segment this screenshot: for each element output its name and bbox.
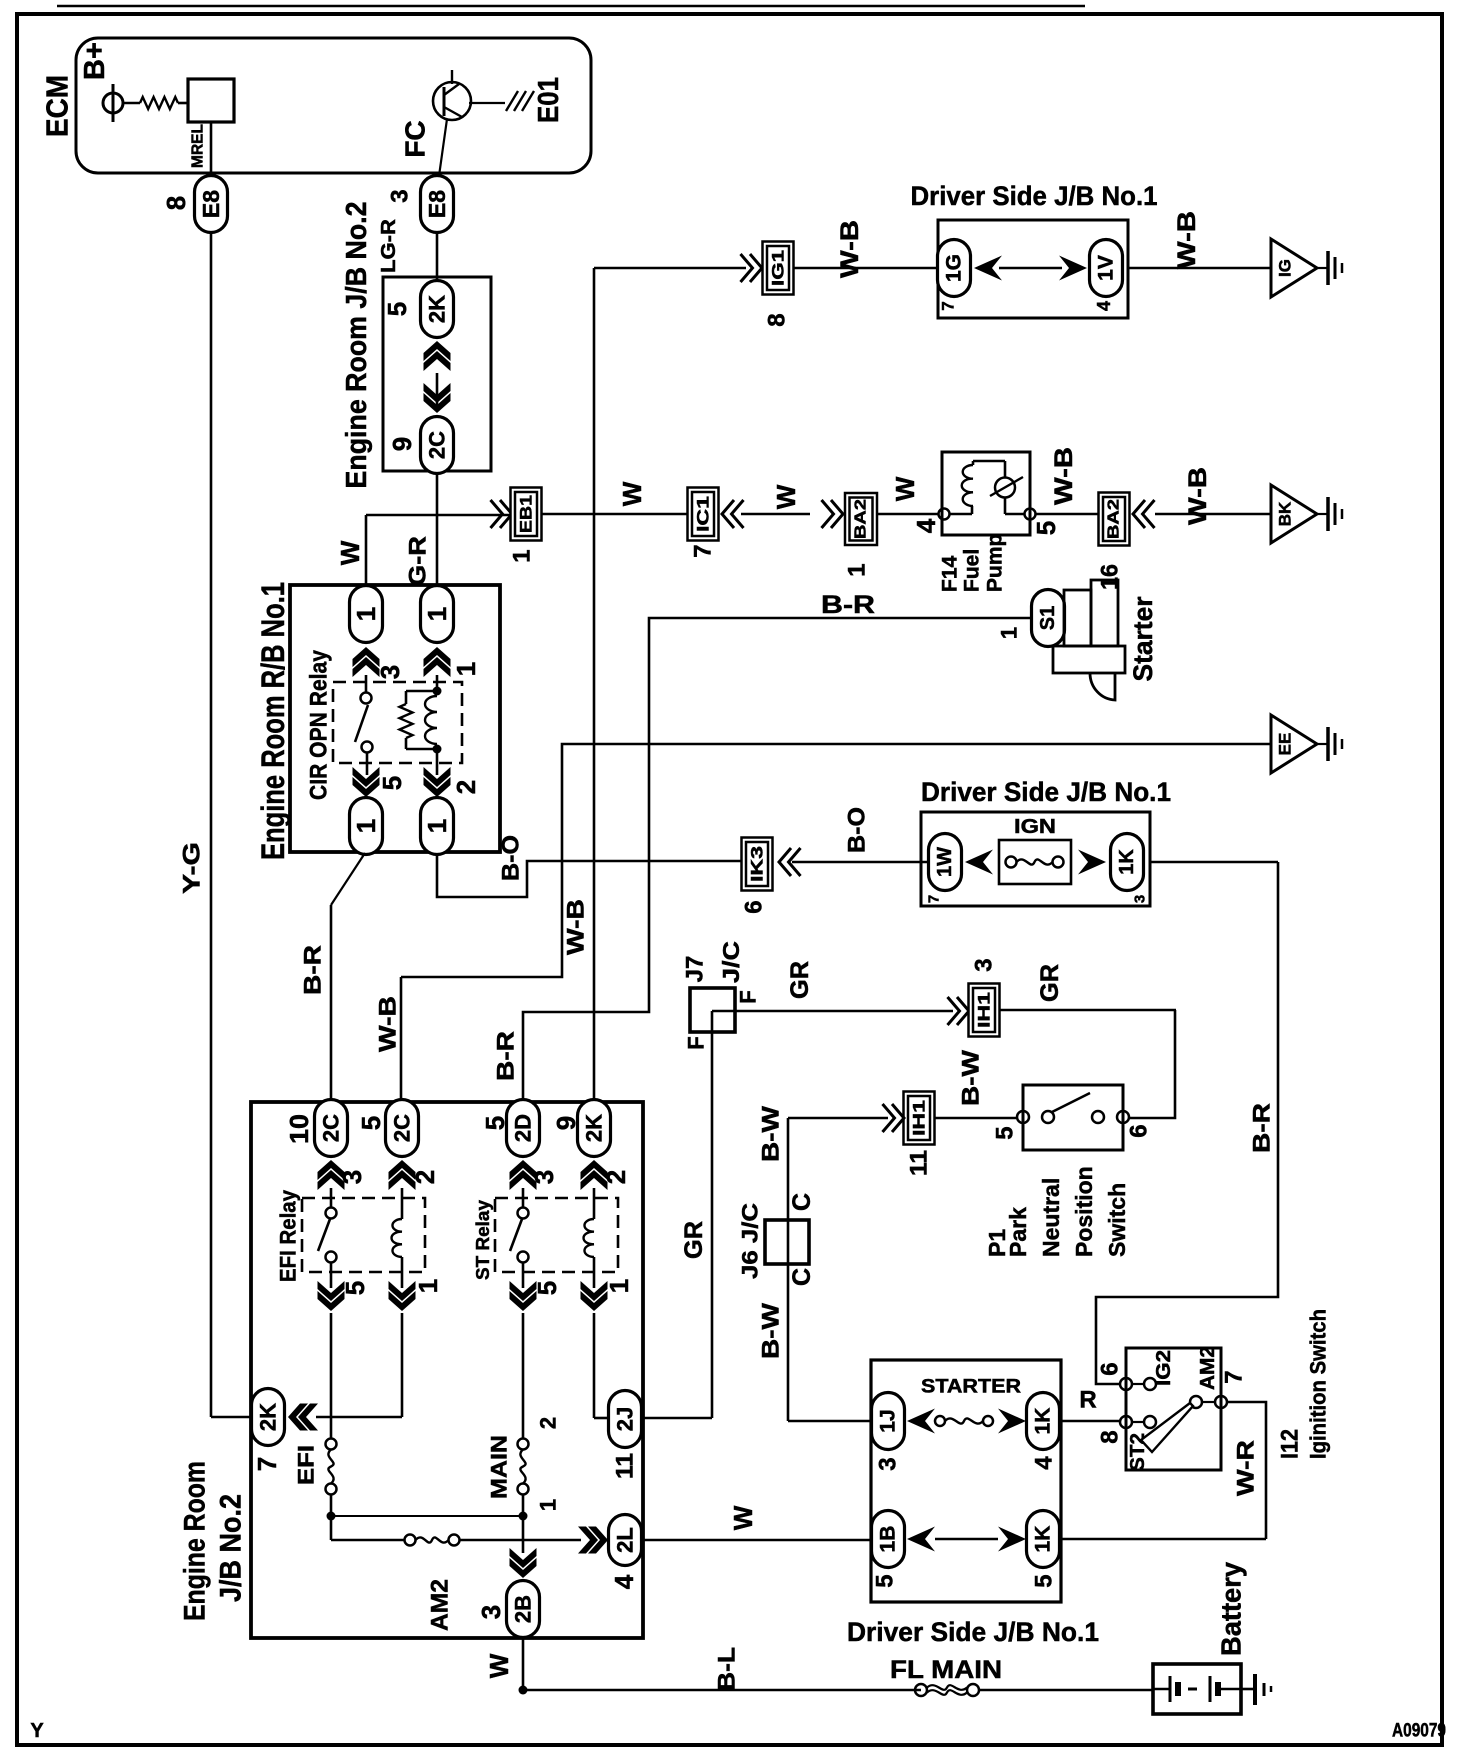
svg-text:EFI: EFI bbox=[294, 1445, 319, 1485]
svg-text:IK3: IK3 bbox=[748, 846, 767, 882]
svg-text:4: 4 bbox=[1031, 1456, 1058, 1470]
svg-text:2: 2 bbox=[410, 1170, 440, 1184]
svg-text:10: 10 bbox=[284, 1114, 314, 1144]
svg-text:B-W: B-W bbox=[758, 1303, 785, 1359]
svg-text:IGN: IGN bbox=[1014, 816, 1056, 838]
svg-text:S1: S1 bbox=[1037, 606, 1059, 630]
svg-text:2K: 2K bbox=[256, 1403, 281, 1431]
svg-text:W-B: W-B bbox=[375, 996, 402, 1052]
svg-text:5: 5 bbox=[382, 302, 412, 316]
svg-text:F14: F14 bbox=[939, 555, 962, 592]
svg-text:EB1: EB1 bbox=[517, 495, 536, 533]
svg-text:2D: 2D bbox=[511, 1114, 536, 1142]
svg-text:1: 1 bbox=[413, 1279, 443, 1293]
svg-text:5: 5 bbox=[377, 776, 407, 790]
svg-text:W: W bbox=[890, 476, 920, 501]
svg-text:Y-G: Y-G bbox=[179, 842, 206, 894]
svg-text:Park: Park bbox=[1005, 1207, 1031, 1257]
svg-text:Engine Room R/B No.1: Engine Room R/B No.1 bbox=[255, 582, 291, 860]
svg-text:FC: FC bbox=[400, 120, 431, 157]
svg-text:3: 3 bbox=[476, 1605, 506, 1619]
svg-text:1V: 1V bbox=[1095, 255, 1118, 281]
svg-text:W: W bbox=[728, 1505, 758, 1530]
svg-text:2C: 2C bbox=[390, 1114, 415, 1142]
svg-text:1: 1 bbox=[997, 627, 1022, 639]
svg-text:2L: 2L bbox=[613, 1527, 638, 1553]
svg-text:R: R bbox=[1079, 1387, 1096, 1414]
svg-text:2: 2 bbox=[601, 1170, 631, 1184]
svg-text:8: 8 bbox=[161, 196, 191, 210]
svg-text:6: 6 bbox=[1126, 1124, 1153, 1137]
svg-text:IH1: IH1 bbox=[910, 1100, 929, 1136]
svg-text:AM2: AM2 bbox=[427, 1579, 454, 1631]
svg-text:IG: IG bbox=[1276, 259, 1295, 277]
svg-text:1: 1 bbox=[422, 819, 452, 833]
svg-text:B-W: B-W bbox=[958, 1050, 985, 1106]
svg-text:EE: EE bbox=[1276, 733, 1295, 756]
svg-text:ST Relay: ST Relay bbox=[473, 1200, 493, 1280]
svg-text:B-L: B-L bbox=[714, 1647, 741, 1691]
svg-text:J/C: J/C bbox=[718, 941, 744, 983]
svg-text:1: 1 bbox=[422, 607, 452, 621]
svg-text:J6 J/C: J6 J/C bbox=[738, 1203, 763, 1279]
svg-text:3: 3 bbox=[375, 665, 405, 679]
svg-text:EFI Relay: EFI Relay bbox=[276, 1189, 301, 1282]
svg-text:J/B No.2: J/B No.2 bbox=[215, 1494, 248, 1602]
svg-text:2K: 2K bbox=[582, 1114, 607, 1142]
svg-text:3: 3 bbox=[971, 958, 998, 971]
svg-text:Starter: Starter bbox=[1128, 596, 1158, 681]
svg-text:IG2: IG2 bbox=[1153, 1350, 1175, 1386]
svg-text:1: 1 bbox=[844, 563, 871, 576]
svg-text:B-O: B-O bbox=[844, 807, 871, 853]
svg-text:B-W: B-W bbox=[758, 1106, 785, 1162]
svg-text:B-R: B-R bbox=[1249, 1103, 1276, 1153]
svg-text:C: C bbox=[788, 1268, 816, 1286]
svg-text:1K: 1K bbox=[1116, 849, 1138, 875]
svg-text:11: 11 bbox=[906, 1150, 933, 1176]
svg-text:5: 5 bbox=[480, 1116, 510, 1130]
svg-text:IC1: IC1 bbox=[694, 496, 713, 532]
svg-text:11: 11 bbox=[612, 1453, 639, 1479]
svg-text:6: 6 bbox=[741, 900, 768, 913]
svg-text:Pump: Pump bbox=[984, 534, 1007, 592]
svg-text:7: 7 bbox=[939, 301, 958, 310]
svg-text:W-B: W-B bbox=[1184, 467, 1212, 525]
svg-text:J7: J7 bbox=[682, 956, 709, 983]
svg-text:AM2: AM2 bbox=[1197, 1346, 1219, 1390]
svg-text:FL MAIN: FL MAIN bbox=[890, 1656, 1002, 1684]
svg-text:W: W bbox=[771, 484, 801, 509]
svg-text:4: 4 bbox=[609, 1574, 639, 1589]
svg-text:Switch: Switch bbox=[1104, 1183, 1130, 1257]
svg-text:B+: B+ bbox=[79, 42, 111, 80]
svg-text:W-B: W-B bbox=[563, 899, 590, 955]
svg-text:2K: 2K bbox=[425, 295, 450, 323]
svg-text:2: 2 bbox=[536, 1417, 561, 1429]
svg-text:B-R: B-R bbox=[300, 945, 327, 995]
svg-text:STARTER: STARTER bbox=[921, 1377, 1021, 1398]
svg-text:1B: 1B bbox=[877, 1526, 900, 1553]
svg-text:W-R: W-R bbox=[1233, 1440, 1260, 1496]
svg-text:1J: 1J bbox=[877, 1409, 900, 1432]
svg-text:LG-R: LG-R bbox=[378, 218, 400, 273]
svg-text:1K: 1K bbox=[1032, 1526, 1055, 1553]
svg-text:F: F bbox=[684, 1036, 709, 1049]
svg-text:Driver Side J/B No.1: Driver Side J/B No.1 bbox=[911, 181, 1158, 211]
svg-text:2: 2 bbox=[451, 780, 481, 794]
svg-text:7: 7 bbox=[252, 1457, 282, 1471]
svg-text:I12: I12 bbox=[1277, 1429, 1304, 1459]
svg-text:W-B: W-B bbox=[1050, 447, 1078, 505]
svg-text:W: W bbox=[484, 1653, 514, 1678]
svg-text:3: 3 bbox=[875, 1457, 902, 1470]
svg-text:BA2: BA2 bbox=[853, 499, 870, 539]
svg-text:7: 7 bbox=[1221, 1370, 1248, 1383]
svg-text:4: 4 bbox=[911, 518, 941, 533]
svg-text:16: 16 bbox=[1097, 564, 1124, 590]
svg-text:A09079: A09079 bbox=[1392, 1721, 1446, 1742]
svg-text:Neutral: Neutral bbox=[1038, 1178, 1064, 1257]
svg-text:8: 8 bbox=[764, 313, 791, 326]
svg-text:1: 1 bbox=[451, 662, 481, 676]
svg-text:1: 1 bbox=[509, 549, 536, 562]
svg-text:W: W bbox=[617, 481, 647, 506]
svg-text:7: 7 bbox=[926, 895, 943, 903]
svg-text:ECM: ECM bbox=[40, 75, 75, 137]
svg-text:Y: Y bbox=[30, 1720, 44, 1742]
svg-text:Engine Room: Engine Room bbox=[179, 1461, 212, 1621]
svg-text:CIR OPN Relay: CIR OPN Relay bbox=[306, 649, 333, 800]
svg-text:3: 3 bbox=[337, 1170, 367, 1184]
svg-text:B-R: B-R bbox=[493, 1031, 520, 1081]
svg-text:Fuel: Fuel bbox=[961, 549, 984, 592]
svg-text:W: W bbox=[335, 540, 365, 565]
svg-text:9: 9 bbox=[551, 1116, 581, 1130]
svg-text:MREL: MREL bbox=[190, 124, 207, 168]
svg-text:3: 3 bbox=[529, 1170, 559, 1184]
svg-text:B-R: B-R bbox=[821, 591, 875, 619]
svg-text:1: 1 bbox=[604, 1279, 634, 1293]
svg-text:Battery: Battery bbox=[1216, 1562, 1247, 1656]
svg-text:W-B: W-B bbox=[836, 220, 864, 278]
svg-text:Engine Room J/B No.2: Engine Room J/B No.2 bbox=[341, 202, 373, 489]
svg-text:E01: E01 bbox=[533, 77, 565, 123]
svg-text:1: 1 bbox=[536, 1499, 561, 1511]
svg-text:Iginition Switch: Iginition Switch bbox=[1306, 1309, 1331, 1459]
svg-text:1: 1 bbox=[351, 607, 381, 621]
svg-text:3: 3 bbox=[387, 189, 414, 202]
svg-text:C: C bbox=[788, 1193, 816, 1211]
svg-text:1W: 1W bbox=[934, 847, 956, 877]
svg-text:Driver Side J/B No.1: Driver Side J/B No.1 bbox=[847, 1617, 1099, 1647]
svg-text:5: 5 bbox=[356, 1116, 386, 1130]
svg-text:5: 5 bbox=[1031, 1574, 1058, 1587]
svg-text:Position: Position bbox=[1071, 1166, 1097, 1257]
svg-text:2J: 2J bbox=[613, 1407, 638, 1431]
svg-text:6: 6 bbox=[1097, 1362, 1124, 1375]
svg-text:5: 5 bbox=[992, 1126, 1019, 1139]
svg-text:IG1: IG1 bbox=[769, 250, 788, 286]
svg-text:E8: E8 bbox=[198, 190, 224, 218]
svg-text:5: 5 bbox=[1031, 521, 1061, 535]
svg-text:Driver Side J/B No.1: Driver Side J/B No.1 bbox=[921, 777, 1171, 807]
svg-text:9: 9 bbox=[387, 437, 417, 451]
svg-text:GR: GR bbox=[786, 961, 814, 999]
svg-text:4: 4 bbox=[1094, 301, 1114, 311]
svg-text:1K: 1K bbox=[1032, 1408, 1055, 1435]
svg-text:MAIN: MAIN bbox=[487, 1435, 512, 1499]
svg-text:7: 7 bbox=[690, 544, 717, 557]
svg-text:1G: 1G bbox=[943, 254, 966, 282]
svg-text:IH1: IH1 bbox=[975, 992, 994, 1028]
svg-text:3: 3 bbox=[1132, 895, 1149, 903]
svg-text:5: 5 bbox=[340, 1281, 370, 1295]
svg-text:G-R: G-R bbox=[405, 536, 432, 586]
svg-text:2B: 2B bbox=[511, 1595, 536, 1623]
svg-text:F: F bbox=[736, 990, 761, 1003]
svg-text:5: 5 bbox=[532, 1281, 562, 1295]
svg-text:B-O: B-O bbox=[498, 835, 525, 881]
svg-text:2C: 2C bbox=[425, 431, 450, 459]
svg-text:5: 5 bbox=[872, 1574, 899, 1587]
svg-text:BA2: BA2 bbox=[1106, 499, 1123, 539]
svg-text:8: 8 bbox=[1097, 1430, 1124, 1443]
svg-text:BK: BK bbox=[1276, 501, 1295, 526]
svg-text:GR: GR bbox=[680, 1221, 708, 1259]
svg-text:E8: E8 bbox=[424, 190, 450, 218]
svg-text:GR: GR bbox=[1036, 964, 1064, 1002]
svg-text:2C: 2C bbox=[319, 1114, 344, 1142]
svg-text:W-B: W-B bbox=[1173, 211, 1201, 269]
svg-text:1: 1 bbox=[351, 819, 381, 833]
